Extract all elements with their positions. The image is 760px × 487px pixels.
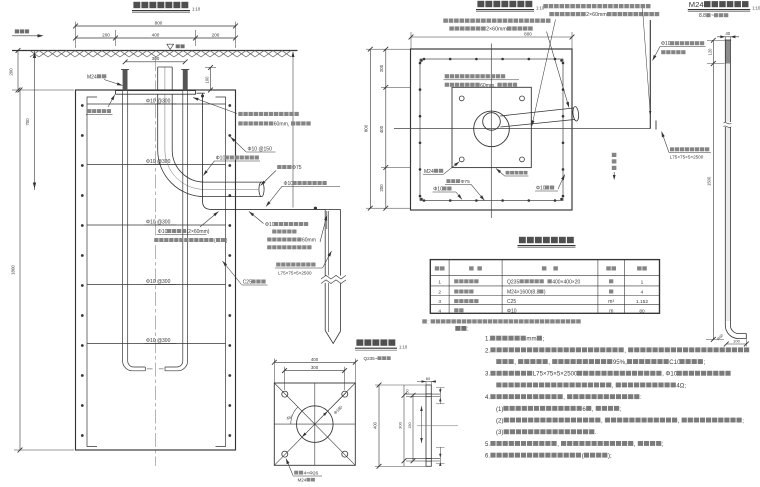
svg-text:Φ10 @300: Φ10 @300 bbox=[146, 99, 171, 105]
svg-text:400: 400 bbox=[152, 33, 160, 38]
svg-text:,: , bbox=[634, 441, 636, 448]
anchor bolts M24 (elevation) bbox=[123, 70, 128, 91]
svg-text:Φ10 @300: Φ10 @300 bbox=[146, 220, 171, 226]
dim 100 bolt projection bbox=[210, 68, 212, 91]
svg-text:M24: M24 bbox=[298, 478, 307, 483]
rebar dots (plan) bbox=[423, 58, 426, 61]
svg-text:100: 100 bbox=[733, 339, 740, 344]
svg-text:120: 120 bbox=[707, 48, 712, 56]
svg-text:1.152: 1.152 bbox=[636, 299, 648, 305]
svg-text:Φ10: Φ10 bbox=[661, 41, 671, 47]
bolt hook bbox=[725, 321, 746, 339]
title: plan view 灯柱基础平面图 bbox=[477, 1, 484, 7]
svg-text:m³: m³ bbox=[608, 299, 614, 305]
svg-text:M24: M24 bbox=[87, 74, 97, 80]
svg-text:L75×75×5×2500: L75×75×5×2500 bbox=[670, 155, 704, 160]
svg-text:L75×75×5×2500: L75×75×5×2500 bbox=[533, 371, 578, 378]
svg-text:200: 200 bbox=[9, 68, 14, 76]
svg-text:3.: 3. bbox=[485, 371, 490, 378]
svg-text:300: 300 bbox=[311, 365, 319, 370]
svg-text:2×60mm: 2×60mm bbox=[586, 12, 607, 18]
plate square bbox=[274, 383, 355, 465]
svg-text:Φ10 @300: Φ10 @300 bbox=[146, 279, 171, 285]
svg-text:.: . bbox=[595, 429, 597, 436]
svg-text:(: ( bbox=[582, 453, 584, 460]
svg-text:800: 800 bbox=[155, 21, 163, 26]
svg-text:6.: 6. bbox=[485, 453, 490, 460]
bolt holes bbox=[282, 391, 288, 397]
svg-text:200: 200 bbox=[212, 33, 220, 38]
left dims 400/300/150 bbox=[378, 385, 380, 466]
foundation outer square (plan) bbox=[411, 49, 573, 210]
45° arc bbox=[291, 407, 298, 424]
embedded plate square (plan) bbox=[452, 87, 531, 167]
dim 120 + 1500 bbox=[712, 40, 714, 339]
svg-text:Q235: Q235 bbox=[507, 279, 519, 285]
shaft break symbol bbox=[724, 122, 732, 127]
right small dims bbox=[439, 388, 441, 404]
svg-text:C10: C10 bbox=[669, 359, 681, 366]
ground surface marker ▽地面 bbox=[167, 44, 174, 49]
conduit circle and exit pipe bbox=[483, 113, 501, 131]
center circle bbox=[297, 406, 334, 443]
svg-text:M24: M24 bbox=[689, 0, 704, 9]
svg-text:;: ; bbox=[620, 406, 622, 413]
bolt shaft bbox=[725, 40, 730, 321]
crosshair centerlines bbox=[394, 128, 650, 130]
svg-text:400: 400 bbox=[373, 421, 378, 429]
svg-text:,: , bbox=[624, 347, 626, 354]
label 开孔4×Φ26 / M24螺栓 bbox=[294, 471, 298, 475]
svg-text:,: , bbox=[514, 359, 516, 366]
svg-text:1:10: 1:10 bbox=[752, 6, 760, 11]
label 灯柱预埋板 (left) bbox=[87, 109, 91, 113]
top annotation 2 bbox=[443, 19, 448, 23]
dim 200 (ground to top) bbox=[17, 51, 19, 91]
svg-text:400: 400 bbox=[379, 125, 384, 133]
svg-text:200: 200 bbox=[379, 184, 384, 192]
svg-text::: : bbox=[427, 320, 428, 326]
diagonals bbox=[274, 383, 355, 465]
table header bbox=[435, 266, 440, 270]
svg-text:Φ75: Φ75 bbox=[292, 165, 302, 171]
svg-text:,: , bbox=[592, 406, 594, 413]
dim 60 top bbox=[417, 381, 436, 383]
svg-text:1: 1 bbox=[438, 279, 441, 285]
svg-text:;: ; bbox=[543, 336, 545, 343]
svg-text:,: , bbox=[563, 394, 565, 401]
svg-text:Φ10: Φ10 bbox=[265, 222, 275, 228]
svg-text:,: , bbox=[548, 359, 550, 366]
svg-text:60: 60 bbox=[426, 376, 431, 381]
label 热镀锌角钢接地极 (right) bbox=[670, 147, 674, 151]
svg-text:L75×75×5×2500: L75×75×5×2500 bbox=[278, 271, 312, 276]
dim 300 bbox=[285, 370, 345, 372]
svg-text:100: 100 bbox=[205, 76, 210, 84]
svg-text:,: , bbox=[557, 441, 559, 448]
svg-text:Φ10: Φ10 bbox=[536, 186, 546, 192]
label 镀锌管Φ75 (plan) bbox=[446, 179, 450, 183]
ground line with hatch bbox=[12, 50, 298, 52]
label 灯柱预埋板 (plan) bbox=[506, 171, 510, 175]
svg-text:4Ω;: 4Ω; bbox=[676, 382, 686, 389]
svg-text:40: 40 bbox=[725, 31, 730, 36]
embedded plate 灯柱预埋板 (elevation) bbox=[116, 91, 196, 95]
svg-text:1:10: 1:10 bbox=[399, 344, 408, 349]
label 现路台 (roadside) bbox=[15, 29, 19, 33]
svg-text:4.: 4. bbox=[485, 394, 490, 401]
center line bbox=[417, 425, 458, 427]
inner rebar square bbox=[420, 59, 563, 201]
svg-text:800: 800 bbox=[363, 124, 368, 132]
annotation leaders bbox=[547, 32, 570, 108]
dim 40 top bbox=[717, 36, 739, 38]
table note bbox=[422, 319, 427, 323]
svg-text:C25: C25 bbox=[507, 299, 516, 305]
svg-text:4×Φ26: 4×Φ26 bbox=[304, 471, 319, 477]
svg-text:,: , bbox=[678, 418, 680, 425]
label 焊接长度不小于60mm bbox=[267, 238, 271, 242]
inner stirrup cage right bbox=[216, 97, 226, 447]
label 热镀锌角钢接地极 L75×75×5×2500 bbox=[276, 263, 280, 267]
svg-text:Q235~: Q235~ bbox=[364, 356, 378, 361]
svg-text:800: 800 bbox=[524, 31, 532, 36]
dimension chain 200/400/200 bbox=[76, 37, 236, 39]
svg-text:Φ10 @300: Φ10 @300 bbox=[146, 338, 171, 344]
svg-text:200: 200 bbox=[102, 33, 110, 38]
dimension 800 top bbox=[76, 25, 236, 27]
svg-text:;: ; bbox=[704, 359, 706, 366]
dim 100 hook bbox=[726, 343, 746, 345]
table grid bbox=[430, 260, 659, 314]
svg-text:95%,: 95%, bbox=[613, 359, 627, 366]
svg-text:2×60mm: 2×60mm bbox=[486, 27, 507, 33]
title: plate detail 灯柱预埋板 bbox=[356, 339, 363, 345]
svg-text:300: 300 bbox=[398, 421, 403, 428]
svg-text:,: , bbox=[601, 418, 603, 425]
svg-text:2: 2 bbox=[438, 290, 441, 296]
bolt hooks bbox=[123, 352, 146, 371]
foundation outline (elevation) bbox=[76, 90, 236, 450]
svg-text:150: 150 bbox=[408, 422, 412, 428]
svg-text:50: 50 bbox=[406, 389, 410, 393]
svg-text:Φ10: Φ10 bbox=[433, 187, 443, 193]
svg-text:1.: 1. bbox=[485, 336, 490, 343]
svg-text:m: m bbox=[609, 308, 613, 314]
svg-text:);: ); bbox=[608, 453, 612, 460]
svg-text:1500: 1500 bbox=[707, 176, 712, 186]
svg-text:;: ; bbox=[742, 418, 744, 425]
leader line to ground wire bbox=[292, 52, 294, 208]
plate bar (section) bbox=[426, 385, 431, 466]
svg-text:Φ10: Φ10 bbox=[284, 181, 294, 187]
svg-text:5.: 5. bbox=[485, 441, 490, 448]
svg-text:(2): (2) bbox=[496, 418, 503, 425]
svg-text:4: 4 bbox=[438, 308, 441, 314]
svg-text:Φ10: Φ10 bbox=[158, 229, 168, 235]
conduit 镀锌管Φ75 bbox=[158, 67, 262, 197]
grounding rebar (welded to plate) bbox=[197, 92, 205, 94]
svg-text:1: 1 bbox=[641, 279, 644, 285]
title: elevation view 灯柱基础立面图 bbox=[133, 2, 140, 8]
svg-text:~: ~ bbox=[711, 13, 714, 19]
svg-text:4: 4 bbox=[641, 290, 644, 296]
down lead wire (right) bbox=[649, 20, 651, 129]
svg-text:1800: 1800 bbox=[11, 265, 16, 275]
svg-text:2.: 2. bbox=[485, 347, 490, 354]
centerline bbox=[155, 57, 157, 466]
bolts through plate bbox=[406, 393, 440, 395]
svg-text:M24: M24 bbox=[424, 169, 434, 175]
Φ180 dim on diagonal bbox=[300, 393, 347, 440]
dim 800 top (plan) bbox=[411, 36, 572, 38]
svg-text:,: , bbox=[612, 382, 614, 389]
svg-text:1:10: 1:10 bbox=[192, 7, 201, 12]
svg-text:400: 400 bbox=[311, 357, 319, 362]
svg-text:60mm,: 60mm, bbox=[480, 83, 496, 89]
label 镀锌管Φ75 bbox=[277, 165, 281, 169]
svg-text:80: 80 bbox=[639, 308, 645, 314]
dim 400 bbox=[274, 361, 355, 363]
svg-text:60mm,: 60mm, bbox=[274, 122, 290, 128]
svg-text:(2×60mm): (2×60mm) bbox=[187, 229, 210, 235]
top annotation 1 bbox=[543, 4, 548, 8]
svg-text:(1): (1) bbox=[496, 406, 503, 413]
notes 附注 bbox=[455, 326, 460, 331]
svg-text:3: 3 bbox=[438, 299, 441, 305]
break symbol bbox=[322, 276, 344, 284]
dim 700 (conduit depth) bbox=[34, 51, 36, 191]
svg-text:M24×1600(8.8: M24×1600(8.8 bbox=[507, 290, 540, 296]
svg-text:, Φ10: , Φ10 bbox=[662, 371, 678, 378]
svg-text:C25: C25 bbox=[243, 280, 252, 286]
label 现路台 (vertical) bbox=[612, 153, 617, 157]
center sleeve circle Φ180 bbox=[474, 111, 510, 147]
svg-text:60mm: 60mm bbox=[302, 238, 316, 244]
svg-text:Φ10: Φ10 bbox=[507, 308, 517, 314]
stirrup bars Φ10@300 bbox=[87, 103, 226, 105]
bolt holes bbox=[459, 96, 464, 101]
dim 1800 (foundation height) bbox=[19, 90, 21, 450]
svg-text:Φ10: Φ10 bbox=[216, 156, 226, 162]
dim 300 bolt spacing bbox=[125, 61, 185, 63]
svg-text:200: 200 bbox=[379, 64, 384, 72]
angle steel electrode L75x75x5 (elevation) bbox=[325, 209, 340, 211]
inner stirrup cage left bbox=[87, 97, 97, 447]
title: material table 每一基座材料表 bbox=[519, 237, 526, 243]
svg-text::: : bbox=[640, 394, 642, 401]
svg-text:Φ10 @150: Φ10 @150 bbox=[248, 147, 273, 153]
left dims plan 200/400/200 + 800 bbox=[385, 49, 387, 208]
svg-text:8.8: 8.8 bbox=[699, 13, 706, 19]
svg-text:;: ; bbox=[662, 441, 664, 448]
rebar section dots bbox=[81, 104, 84, 107]
svg-text:(3): (3) bbox=[496, 429, 503, 436]
extension lines bbox=[75, 22, 77, 49]
label 接地钢筋与预埋板可靠焊接 (plan) bbox=[445, 74, 449, 78]
svg-text:mm: mm bbox=[526, 336, 536, 343]
svg-text:400×400×20: 400×400×20 bbox=[552, 279, 580, 285]
label 接地钢筋与预埋板可靠焊接 bbox=[238, 112, 242, 116]
svg-text:700: 700 bbox=[25, 118, 30, 126]
